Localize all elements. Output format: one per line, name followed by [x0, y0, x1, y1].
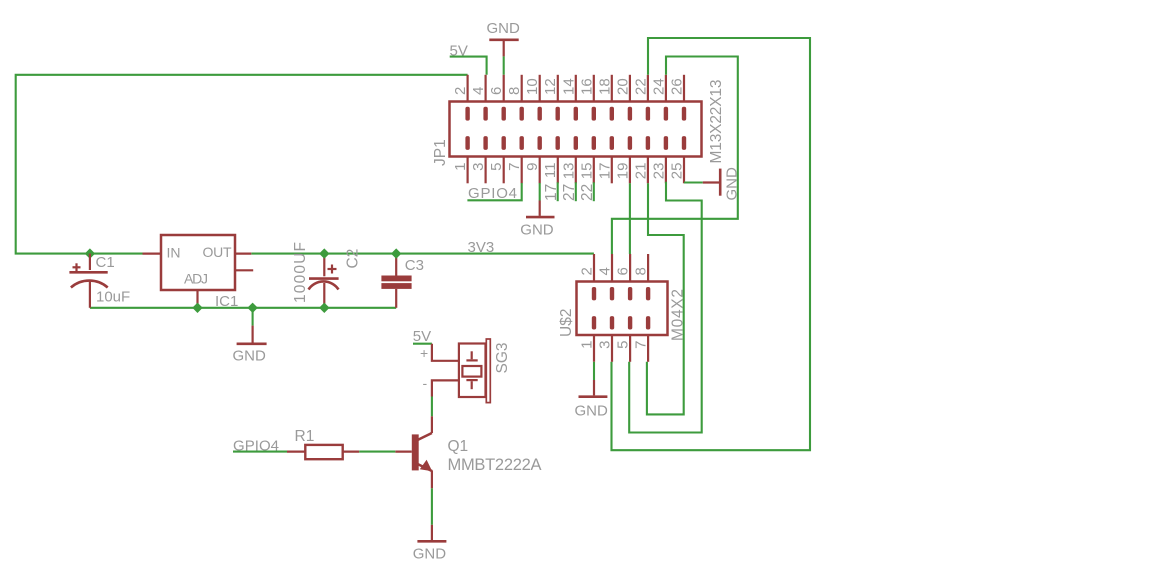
- net label GPIO4 at JP1 pin 7: [467, 183, 521, 202]
- U$2 pin 8: [633, 254, 651, 300]
- net stub 27 at JP1: [561, 182, 578, 201]
- svg-text:4: 4: [597, 267, 614, 275]
- svg-text:4: 4: [470, 87, 487, 95]
- wire JP1 pin 22 to U$2 pin 3: [612, 38, 811, 450]
- svg-text:21: 21: [632, 163, 649, 180]
- svg-text:9: 9: [524, 163, 541, 171]
- svg-text:20: 20: [614, 78, 631, 95]
- wire JP1 pin 21 to U$2 pin 7: [647, 183, 684, 414]
- U$2 pin 4: [597, 254, 615, 300]
- wire 3V3 rail from IC1 OUT to U$2 pin 2: [251, 253, 594, 255]
- JP1 pin 18: [596, 75, 614, 121]
- node junction at 396,254: [391, 248, 401, 258]
- svg-text:5: 5: [488, 163, 505, 171]
- svg-text:3V3: 3V3: [468, 239, 495, 256]
- svg-text:7: 7: [633, 341, 650, 349]
- capacitor C2 (polarized 1000UF): [309, 254, 339, 308]
- U$2 pin 3: [597, 316, 615, 362]
- JP1 pin 19: [614, 136, 632, 183]
- JP1 pin 23: [650, 136, 668, 183]
- svg-text:8: 8: [506, 87, 523, 95]
- JP1 pin 24: [650, 75, 668, 121]
- ground GND below JP1 pin 9: [520, 183, 554, 239]
- svg-text:GND: GND: [233, 348, 267, 365]
- svg-text:12: 12: [542, 78, 559, 95]
- JP1 pin 16: [578, 75, 596, 121]
- resistor R1: [287, 445, 359, 459]
- ground GND below U$2 pin 1: [575, 362, 609, 420]
- JP1 pin 9: [524, 136, 542, 183]
- U$2 pin 6: [615, 254, 633, 300]
- net label 5V (JP1 pin 4): [450, 43, 487, 75]
- svg-text:GND: GND: [413, 546, 447, 563]
- JP1 pin 1: [452, 136, 470, 183]
- header U$2 body: [577, 282, 668, 336]
- svg-text:24: 24: [650, 78, 667, 95]
- svg-text:ADJ: ADJ: [184, 271, 208, 287]
- capacitor C1 (polarized): [69, 254, 107, 308]
- svg-text:7: 7: [506, 163, 523, 171]
- U$2 pin 7: [633, 316, 651, 362]
- svg-text:2: 2: [579, 267, 596, 275]
- svg-text:18: 18: [596, 78, 613, 95]
- header JP1 body: [450, 102, 702, 157]
- IC1 pin ADJ: [196, 290, 198, 304]
- JP1 pin 21: [632, 136, 650, 183]
- JP1 pin 3: [470, 136, 488, 183]
- JP1 pin 10: [524, 75, 542, 121]
- JP1 pin 5: [488, 136, 506, 183]
- IC1 pin OUT: [235, 253, 251, 255]
- IC1 pin IN: [143, 253, 162, 255]
- svg-text:IN: IN: [167, 245, 181, 261]
- U$2 pin 5: [615, 316, 633, 362]
- svg-text:25: 25: [669, 163, 686, 180]
- svg-text:26: 26: [669, 78, 686, 95]
- svg-text:Q1: Q1: [448, 438, 469, 455]
- svg-text:SG3: SG3: [494, 342, 511, 373]
- svg-text:1: 1: [452, 163, 469, 171]
- wire SG3 minus pin to Q1 collector: [432, 380, 459, 396]
- svg-text:GND: GND: [487, 20, 521, 37]
- JP1 pin 14: [560, 75, 578, 121]
- svg-text:GND: GND: [520, 222, 554, 239]
- svg-text:23: 23: [650, 163, 667, 180]
- svg-text:M04X2: M04X2: [670, 289, 687, 341]
- JP1 pin 20: [614, 75, 632, 121]
- svg-text:U$2: U$2: [558, 309, 575, 337]
- JP1 pin 25: [669, 136, 687, 183]
- buzzer SG3 body: [459, 339, 490, 403]
- svg-text:3: 3: [597, 341, 614, 349]
- wire R1 to Q1 base: [359, 451, 395, 453]
- transistor Q1: [395, 416, 432, 488]
- wire JP1 pin 23 to U$2 pin 5: [629, 182, 702, 433]
- svg-text:R1: R1: [295, 428, 315, 445]
- svg-text:2: 2: [452, 87, 469, 95]
- JP1 pin 11: [542, 136, 560, 183]
- svg-text:5V: 5V: [413, 328, 431, 345]
- node junction 5V rail at C1: [85, 248, 95, 258]
- JP1 pin 22: [632, 75, 650, 121]
- JP1 pin 2: [452, 75, 470, 121]
- svg-text:8: 8: [633, 267, 650, 275]
- JP1 pin 15: [578, 136, 596, 183]
- svg-text:10uF: 10uF: [96, 289, 130, 306]
- net stub 22 at JP1: [579, 182, 596, 201]
- svg-text:17: 17: [543, 184, 560, 201]
- wire ground rail under IC1: [90, 307, 396, 309]
- svg-text:GND: GND: [575, 403, 609, 420]
- node junction at 324,254: [319, 248, 329, 258]
- node junction at 253,308: [247, 303, 257, 313]
- svg-text:3: 3: [470, 163, 487, 171]
- ground GND right of JP1 at pin 25: [684, 167, 741, 201]
- op-amp / regulator IC1 body: [161, 235, 235, 290]
- JP1 pin 4: [470, 75, 488, 121]
- svg-text:5: 5: [615, 341, 632, 349]
- net stub 17 at JP1: [543, 182, 560, 201]
- U$2 pin 2: [579, 254, 597, 300]
- svg-text:IC1: IC1: [215, 293, 238, 310]
- svg-text:C1: C1: [96, 254, 115, 271]
- svg-text:22: 22: [579, 184, 596, 201]
- svg-text:6: 6: [615, 267, 632, 275]
- svg-text:MMBT2222A: MMBT2222A: [448, 456, 542, 474]
- svg-text:GPIO4: GPIO4: [468, 185, 517, 202]
- svg-text:13: 13: [560, 163, 577, 180]
- capacitor C3: [381, 254, 411, 308]
- svg-text:OUT: OUT: [203, 244, 232, 260]
- net label GPIO4 at R1: [233, 438, 287, 455]
- svg-text:+: +: [420, 345, 428, 361]
- ground GND below IC1 rail: [233, 308, 267, 365]
- wire JP1 pin 24 to U$2 pin 4: [612, 57, 738, 255]
- net label 5V at SG3: [413, 328, 432, 345]
- svg-text:-: -: [423, 375, 428, 391]
- ground GND below Q1 emitter: [413, 488, 447, 562]
- U$2 pin 1: [579, 316, 597, 362]
- svg-text:1: 1: [579, 341, 596, 349]
- ground GND above JP1 pin 6: [487, 20, 521, 75]
- svg-text:10: 10: [524, 78, 541, 95]
- JP1 pin 8: [506, 75, 524, 121]
- svg-text:C3: C3: [405, 257, 424, 274]
- node junction at 198,308: [192, 303, 202, 313]
- svg-text:11: 11: [542, 163, 559, 179]
- svg-text:1000UF: 1000UF: [292, 242, 309, 303]
- svg-text:JP1: JP1: [432, 139, 449, 166]
- JP1 pin 17: [596, 136, 614, 183]
- JP1 pin 26: [669, 75, 687, 121]
- IC1 pin OUT2: [235, 269, 253, 271]
- JP1 pin 7: [506, 136, 524, 183]
- wire SG3 plus pin: [432, 344, 459, 361]
- svg-text:14: 14: [560, 78, 577, 95]
- svg-text:22: 22: [632, 78, 649, 95]
- wire JP1 pin 19 to U$2 pin 6: [629, 183, 631, 254]
- wire 5V net loop: JP1 pin 2 to C1 / IC1 IN: [16, 75, 468, 254]
- svg-text:C2: C2: [345, 249, 362, 269]
- svg-text:17: 17: [596, 163, 613, 180]
- svg-text:M13X22X13: M13X22X13: [708, 80, 725, 164]
- JP1 pin 12: [542, 75, 560, 121]
- svg-text:16: 16: [578, 78, 595, 95]
- svg-text:6: 6: [488, 87, 505, 95]
- JP1 pin 6: [488, 75, 506, 121]
- JP1 pin 13: [560, 136, 578, 183]
- svg-text:27: 27: [561, 184, 578, 201]
- node junction at 324,308: [319, 303, 329, 313]
- svg-text:15: 15: [578, 163, 595, 180]
- svg-text:19: 19: [614, 163, 631, 180]
